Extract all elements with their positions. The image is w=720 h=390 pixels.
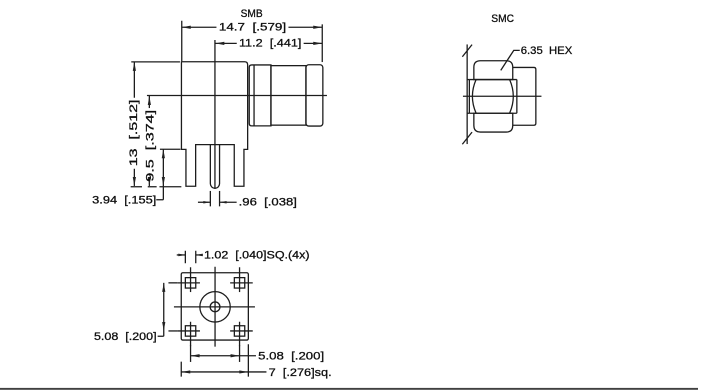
svg-text:6.35 HEX: 6.35 HEX [521, 45, 573, 57]
svg-text:14.7 [.579]: 14.7 [.579] [219, 21, 286, 33]
svg-text:3.94 [.155]: 3.94 [.155] [92, 195, 156, 207]
svg-text:9.5 [.374]: 9.5 [.374] [145, 110, 157, 182]
svg-text:1.02 [.040]SQ.(4x): 1.02 [.040]SQ.(4x) [204, 250, 310, 262]
svg-text:7 [.276]sq.: 7 [.276]sq. [269, 367, 332, 379]
svg-text:13 [.512]: 13 [.512] [128, 100, 140, 167]
svg-text:11.2 [.441]: 11.2 [.441] [239, 38, 302, 50]
svg-text:.96 [.038]: .96 [.038] [239, 197, 297, 209]
svg-text:5.08 [.200]: 5.08 [.200] [94, 331, 157, 343]
svg-text:SMC: SMC [491, 13, 514, 25]
svg-text:SMB: SMB [241, 8, 263, 20]
svg-text:5.08 [.200]: 5.08 [.200] [258, 350, 324, 362]
